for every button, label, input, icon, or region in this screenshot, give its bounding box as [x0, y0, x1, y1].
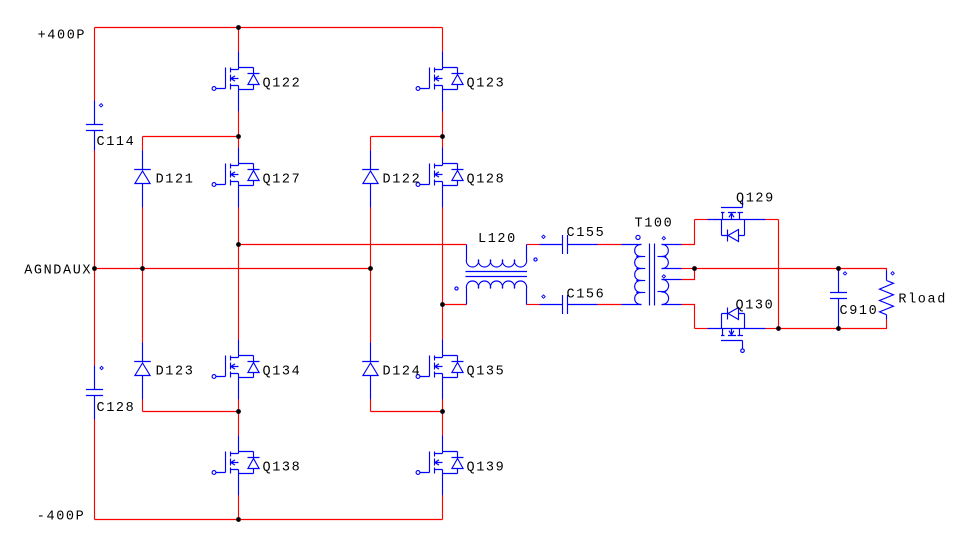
svg-text:Q135: Q135 [467, 365, 506, 380]
wire C156 to T100 [598, 304, 622, 306]
wire T100 center tap lower [682, 269, 695, 280]
svg-text:Q139: Q139 [467, 461, 506, 476]
wire leg2 Q128-Q135 node [442, 208, 444, 340]
svg-text:C910: C910 [840, 304, 879, 319]
diode D123 [134, 343, 194, 400]
capacitor C155 [540, 226, 606, 254]
svg-text:C156: C156 [567, 288, 606, 303]
wire D123 cathode from AGNDAUX [142, 269, 144, 343]
wire D123 anode to mid2 [142, 400, 144, 412]
wire D124 cathode from AGNDAUX [370, 269, 372, 343]
wire L120 to C156 [527, 304, 540, 306]
net label AGNDAUX [24, 264, 92, 279]
transistor Q138 [212, 436, 301, 496]
svg-text:-400P: -400P [37, 509, 86, 524]
wire D121 anode to AGNDAUX [142, 208, 144, 269]
wire left cap string upper [94, 28, 96, 101]
inductor L120 [455, 232, 545, 304]
transistor Q135 [416, 340, 505, 400]
wire Q129 left stub [695, 219, 708, 221]
wire D122 to leg2 mid1 [371, 136, 443, 138]
svg-text:+400P: +400P [38, 29, 87, 44]
svg-text:D122: D122 [383, 173, 422, 188]
wire load top [695, 269, 887, 271]
transistor Q139 [416, 436, 505, 496]
svg-text:C128: C128 [97, 401, 136, 416]
junction center tap [692, 266, 697, 271]
wire L120 to C155 [527, 244, 540, 246]
wire T100 center tap upper [682, 268, 695, 270]
transistor Q129 [708, 191, 775, 241]
junction leg1 mid2 [236, 409, 241, 414]
wire AGNDAUX [95, 268, 371, 270]
wire leg2 drain Q123 [442, 28, 444, 52]
svg-text:C114: C114 [97, 135, 136, 150]
wire left cap string lower [94, 420, 96, 520]
junction bottom rail / leg1 [236, 517, 241, 522]
svg-text:C155: C155 [567, 226, 606, 241]
capacitor C156 [540, 288, 606, 314]
wire D124 anode to mid2 [370, 400, 372, 412]
net label -400P [37, 509, 86, 524]
transistor Q122 [212, 52, 301, 112]
wire T100 sec1 top to Q129 [682, 220, 695, 245]
diode D121 [134, 151, 194, 208]
wire D121 to leg1 mid1 [143, 136, 239, 138]
wire left cap string middle [94, 151, 96, 366]
diode D124 [362, 343, 421, 400]
transistor Q127 [212, 148, 301, 208]
svg-text:Q134: Q134 [263, 365, 302, 380]
junction AGNDAUX / D122-D124 column [368, 266, 373, 271]
wire Q130 right stub [766, 328, 779, 330]
resistor Rload [880, 271, 947, 320]
wire load bottom [779, 320, 887, 329]
wire Q129 right stub [766, 219, 779, 221]
wire +400P top rail [95, 27, 443, 29]
junction top rail / leg1 [236, 25, 241, 30]
wire leg1 drain Q122 [238, 28, 240, 52]
wire D121 cathode riser [142, 137, 144, 151]
junction leg2 mid2 [440, 409, 445, 414]
svg-text:Q127: Q127 [263, 173, 302, 188]
junction AGNDAUX / cap string [92, 266, 97, 271]
svg-text:T100: T100 [635, 217, 674, 232]
capacitor C114 [86, 101, 135, 151]
wire leg1 Q127-Q134 node [238, 208, 240, 340]
svg-text:Rload: Rload [898, 293, 947, 308]
wire Q130 left stub [695, 328, 708, 330]
wire T100 sec2 bottom to Q130 [682, 305, 695, 329]
svg-text:L120: L120 [478, 232, 517, 247]
junction leg1 mid1 [236, 134, 241, 139]
junction leg2 mid1 [440, 134, 445, 139]
transistor Q134 [212, 340, 301, 400]
transistor Q130 [708, 298, 775, 352]
wire leg2 Q123-Q128 node [442, 112, 444, 148]
svg-text:D124: D124 [383, 365, 422, 380]
junction Q130 output [776, 326, 781, 331]
wire leg1 Q134-Q138 node [238, 400, 240, 436]
svg-text:Q129: Q129 [736, 191, 775, 206]
diode D122 [362, 151, 421, 208]
wire D122 anode to AGNDAUX [370, 208, 372, 269]
wire D124 to leg2 mid2 [371, 411, 443, 413]
transistor Q128 [416, 148, 505, 208]
wire Q129 to Q130 right link [778, 220, 780, 329]
net label +400P [38, 29, 87, 44]
wire D123 to leg1 mid2 [143, 411, 239, 413]
svg-text:AGNDAUX: AGNDAUX [24, 264, 92, 279]
svg-text:Q123: Q123 [467, 77, 506, 92]
svg-text:D121: D121 [156, 173, 195, 188]
wire leg2 Q135-Q139 node [442, 400, 444, 436]
capacitor C910 [830, 271, 878, 328]
junction AGNDAUX / D121-D123 column [140, 266, 145, 271]
wire leg1 source Q138 [238, 496, 240, 520]
svg-text:Q122: Q122 [263, 77, 302, 92]
wire output B leg2 to L120 [443, 304, 467, 306]
wire -400P bottom rail [95, 519, 443, 521]
junction C910 top [836, 266, 841, 271]
junction leg1 output [236, 242, 241, 247]
svg-text:Q128: Q128 [467, 173, 506, 188]
transistor Q123 [416, 52, 505, 112]
wire leg2 source Q139 [442, 496, 444, 520]
svg-text:D123: D123 [156, 365, 195, 380]
wire leg1 Q122-Q127 node [238, 112, 240, 148]
junction leg2 output [440, 302, 445, 307]
svg-text:Q138: Q138 [263, 461, 302, 476]
wire C155 to T100 [598, 244, 622, 246]
svg-text:Q130: Q130 [736, 298, 775, 313]
capacitor C128 [86, 366, 135, 420]
transformer T100 [622, 217, 682, 306]
wire D122 cathode riser [370, 137, 372, 151]
junction C910 bottom [836, 326, 841, 331]
wire output A leg1 to L120 [239, 244, 467, 246]
